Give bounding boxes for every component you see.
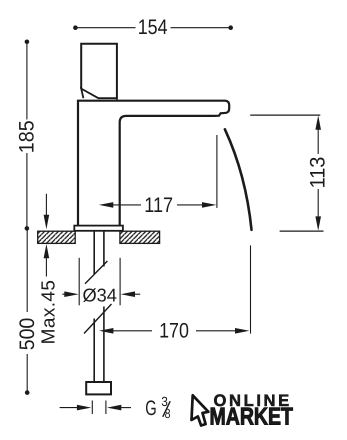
extension line under spout tip xyxy=(216,135,218,208)
connection nut xyxy=(86,382,111,394)
dim Max.45 upper arrow (down) xyxy=(45,194,47,216)
pipe break slash 1 xyxy=(85,261,107,284)
svg-text:MARKET: MARKET xyxy=(210,404,294,431)
countertop right segment (hatched) xyxy=(120,231,160,243)
svg-text:113: 113 xyxy=(306,157,329,189)
svg-text:G: G xyxy=(145,397,156,420)
svg-text:117: 117 xyxy=(144,194,173,217)
base plate xyxy=(74,226,123,231)
supply pipe upper segment xyxy=(94,231,104,274)
pipe break slash 2 xyxy=(84,304,112,334)
extension line water stream xyxy=(250,245,252,333)
dim 170 line with arrows xyxy=(112,330,236,332)
dim G3/8 left arrow xyxy=(60,407,78,409)
dim 185 end dots xyxy=(25,40,30,45)
dim 154 end dots xyxy=(73,25,78,30)
svg-text:170: 170 xyxy=(159,319,189,342)
svg-text:500: 500 xyxy=(16,318,39,351)
dim 154 line xyxy=(77,27,230,29)
dim 113 bottom tick xyxy=(280,230,324,232)
svg-text:Max.45: Max.45 xyxy=(38,280,59,345)
water stream curve xyxy=(225,129,252,230)
supply pipe lower segment xyxy=(94,307,104,383)
countertop left segment (hatched) xyxy=(38,231,75,243)
dim Ø34 arrows xyxy=(62,293,140,295)
dim Ø34 extension lines xyxy=(79,258,120,306)
dim 500 end dot xyxy=(25,390,30,395)
dim 113 line with arrows xyxy=(317,129,319,217)
dim G3/8 right tick xyxy=(105,401,107,415)
G3/8 fraction slash xyxy=(163,401,170,417)
dim 500 line xyxy=(26,231,28,391)
dim 117 line with arrows xyxy=(112,204,204,206)
dim 185 line xyxy=(26,44,28,227)
dim G3/8 left tick xyxy=(91,401,93,415)
dim G3/8 right arrow xyxy=(121,407,132,409)
svg-text:185: 185 xyxy=(16,120,39,153)
logo cursor icon xyxy=(192,395,209,425)
svg-text:154: 154 xyxy=(138,16,168,39)
svg-text:8: 8 xyxy=(165,406,171,421)
faucet body and spout xyxy=(78,101,229,226)
faucet lever handle xyxy=(81,44,117,100)
dim 113 top tick xyxy=(250,114,320,116)
dim Max.45 lower arrow (up) xyxy=(45,258,47,277)
svg-text:Ø34: Ø34 xyxy=(82,285,116,306)
